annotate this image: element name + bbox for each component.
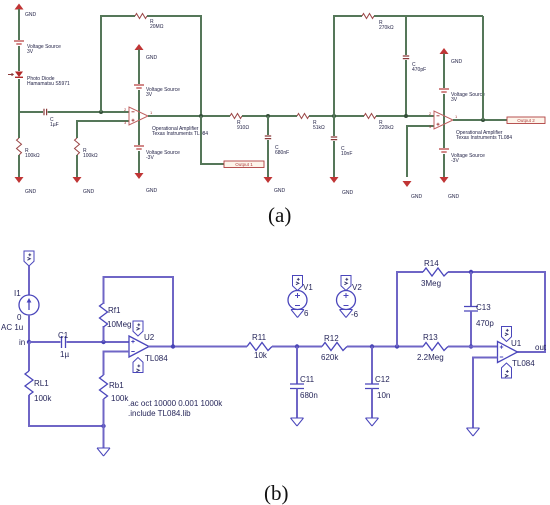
wire R51k to node2: [309, 115, 364, 117]
wire U2 out to R11: [149, 346, 248, 348]
resistor Rf1 10Meg: [100, 303, 132, 329]
net flag V- below U2: [133, 358, 143, 373]
node U2 out: [171, 344, 175, 348]
wire feedback1 top right: [147, 16, 201, 116]
capacitor C 1uF: [44, 109, 59, 128]
wire left rail low: [18, 79, 20, 113]
svg-text:680n: 680n: [300, 391, 318, 400]
svg-text:10Meg: 10Meg: [107, 320, 131, 329]
node C13 bottom: [469, 344, 473, 348]
ground GND top-left: [15, 4, 37, 19]
wire node to RL1: [28, 342, 30, 371]
resistor Rb1 100k: [100, 375, 130, 403]
wire feedback up: [397, 272, 423, 347]
wire node to C680: [267, 116, 269, 135]
svg-text:0: 0: [17, 313, 22, 322]
svg-text:Texas Instruments TL084: Texas Instruments TL084: [456, 135, 512, 141]
svg-text:R13: R13: [423, 333, 438, 342]
svg-text:R11: R11: [252, 333, 267, 342]
net flag V+ above U1: [502, 327, 512, 342]
caption (a): [268, 203, 291, 227]
svg-text:-3V: -3V: [146, 155, 154, 161]
svg-text:GND: GND: [83, 189, 95, 195]
wire C13 stem: [470, 272, 472, 306]
resistor R1 100k: [17, 138, 40, 159]
wire rail to ground: [103, 426, 105, 448]
net flag above V1: [293, 276, 303, 291]
capacitor C11 680n: [290, 375, 318, 400]
wire feedback3 left vertical: [334, 16, 362, 116]
capacitor C 10nF: [331, 137, 353, 157]
wire gnd to vs1: [138, 50, 140, 85]
svg-text:TL084: TL084: [512, 359, 535, 368]
svg-text:100k: 100k: [111, 394, 129, 403]
node Rf1 bottom: [101, 340, 105, 344]
voltage source V1 6: [288, 283, 313, 318]
node C10n: [332, 114, 336, 118]
wire feedback1 left vertical and top: [101, 16, 135, 112]
svg-text:.include TL084.lib: .include TL084.lib: [128, 409, 191, 418]
wire row B opamp1 out to R910: [148, 115, 230, 117]
wire U1 minus branch: [473, 358, 498, 429]
node C12: [370, 344, 374, 348]
wire R13 to U1 plus: [448, 346, 498, 348]
svg-text:10n: 10n: [377, 391, 390, 400]
svg-text:GND: GND: [274, 188, 286, 194]
svg-text:(b): (b): [264, 481, 289, 505]
svg-text:51kΩ: 51kΩ: [313, 125, 325, 131]
svg-text:Output 2: Output 2: [517, 118, 535, 123]
net flag above I1: [24, 251, 34, 266]
wire C13 to row: [470, 311, 472, 347]
svg-text:220kΩ: 220kΩ: [379, 125, 394, 131]
svg-text:2.2Meg: 2.2Meg: [417, 353, 444, 362]
wire vs4 to gnd: [443, 154, 445, 177]
ground below opamp3: [440, 177, 460, 200]
wire R1 to gnd: [18, 155, 20, 177]
capacitor C1 1u: [58, 331, 69, 359]
svg-text:270kΩ: 270kΩ: [379, 25, 394, 31]
svg-text:6: 6: [304, 309, 309, 318]
wire R910 to node C680: [242, 115, 297, 117]
svg-text:GND: GND: [25, 189, 37, 195]
wire row A cap to opamp pin2: [48, 111, 129, 113]
ground below R2: [73, 177, 95, 195]
ground below C680: [264, 177, 286, 194]
wire C12 to ground: [371, 389, 373, 419]
node stage3: [404, 114, 408, 118]
svg-text:3V: 3V: [451, 97, 458, 103]
op-amp U1 TL084: [498, 339, 536, 368]
ground below opamp1: [135, 173, 158, 194]
wire flag to I1: [28, 266, 30, 295]
svg-text:(a): (a): [268, 203, 291, 227]
capacitor C12 10n: [365, 375, 390, 400]
wire R12 to R13: [347, 346, 423, 348]
svg-text:Rf1: Rf1: [108, 306, 121, 315]
wire feedback3 top right: [374, 15, 483, 17]
wire U2 minus branch: [104, 352, 130, 376]
wire R2 to gnd: [76, 155, 78, 177]
svg-text:GND: GND: [451, 59, 463, 65]
wire Rb1 to rail: [103, 399, 105, 426]
resistor R 270k: [362, 14, 394, 32]
wire opamp3 output: [453, 119, 507, 121]
voltage source -3V opamp3: [439, 149, 485, 164]
op-amp stage2 TL084: [429, 111, 512, 141]
resistor R12 620k: [321, 334, 347, 362]
svg-text:100kΩ: 100kΩ: [25, 153, 40, 159]
wire row A to cap: [19, 111, 43, 113]
svg-text:U2: U2: [144, 333, 155, 342]
wire C470 lower stem: [405, 60, 407, 116]
wire R220k to opamp3 pin2: [376, 115, 434, 117]
wire Rf1 lower stem: [103, 326, 105, 342]
wire gnd to vs3: [443, 54, 445, 89]
wire R14 to right: [448, 272, 545, 352]
svg-text:10k: 10k: [254, 351, 268, 360]
wire vs1 to opamp1 top: [138, 90, 140, 145]
svg-text:V1: V1: [303, 283, 313, 292]
ground pin3 opamp3: [403, 181, 423, 200]
wire I1 to node in: [28, 315, 30, 342]
node output1: [199, 114, 203, 118]
voltage source V2 -6: [337, 283, 363, 319]
svg-text:Rb1: Rb1: [109, 381, 124, 390]
resistor R11 10k: [247, 333, 272, 360]
svg-text:GND: GND: [411, 194, 423, 200]
svg-text:GND: GND: [146, 55, 158, 61]
svg-text:470pF: 470pF: [412, 67, 426, 73]
wire opamp3 pin3 branch: [407, 126, 434, 177]
svg-text:10nF: 10nF: [341, 151, 352, 157]
wire vs3 to opamp3: [443, 94, 445, 148]
node junction J1: [99, 110, 103, 114]
svg-text:3Meg: 3Meg: [421, 279, 441, 288]
photodiode D1 Hamamatsu S5971: [8, 72, 70, 88]
node output2: [481, 118, 485, 122]
capacitor C 470pF: [403, 56, 426, 73]
wire C470 upper stem: [405, 16, 407, 55]
voltage source -3V opamp1: [134, 146, 180, 161]
svg-text:in: in: [19, 338, 25, 347]
ground V2: [340, 310, 353, 318]
svg-text:1µ: 1µ: [60, 350, 69, 359]
svg-text:I1: I1: [14, 289, 21, 298]
node feedback tap: [395, 344, 399, 348]
svg-text:.ac oct 10000 0.001 1000k: .ac oct 10000 0.001 1000k: [128, 399, 223, 408]
current source I1 AC 1u: [1, 289, 39, 332]
svg-text:TL084: TL084: [145, 354, 168, 363]
ground C12: [366, 418, 379, 426]
ground C11: [291, 418, 304, 426]
svg-text:910Ω: 910Ω: [237, 125, 249, 131]
wire left rail top: [18, 9, 20, 40]
ground below C10n: [330, 177, 354, 196]
wire node to C10n: [333, 116, 335, 136]
net flag V- below U1: [502, 363, 512, 378]
svg-text:470p: 470p: [476, 319, 494, 328]
wire C10n to gnd: [333, 141, 335, 177]
svg-text:C1: C1: [58, 331, 69, 340]
ground main rail: [97, 448, 110, 456]
svg-text:-3V: -3V: [451, 158, 459, 164]
svg-text:620k: 620k: [321, 353, 339, 362]
svg-text:1µF: 1µF: [50, 122, 59, 128]
wire node to R1: [18, 112, 20, 138]
ground V1: [291, 310, 304, 318]
wire in to C1: [29, 341, 61, 343]
svg-text:R14: R14: [424, 259, 439, 268]
resistor R14 3Meg: [421, 259, 448, 288]
resistor RL1 100k: [25, 371, 52, 403]
wire C680 to gnd: [267, 140, 269, 177]
svg-text:Output 1: Output 1: [235, 162, 253, 167]
resistor R 220k: [364, 114, 394, 132]
spice directive .ac: [128, 399, 223, 418]
svg-text:U1: U1: [511, 339, 522, 348]
svg-text:C12: C12: [375, 375, 390, 384]
wire left rail mid: [18, 46, 20, 71]
wire C12 stem: [371, 347, 373, 385]
wire RL1 to rail: [29, 395, 104, 426]
wire output1 tap: [201, 116, 224, 164]
wire C11 to ground: [296, 389, 298, 419]
net label Output 1: [224, 161, 264, 168]
resistor R2 100k: [75, 138, 98, 159]
wire C1 to U2 plus: [67, 341, 130, 343]
voltage source 3V opamp3: [439, 89, 485, 103]
voltage source 3V opamp1: [134, 85, 180, 98]
svg-text:20MΩ: 20MΩ: [150, 24, 164, 30]
capacitor C13 470p: [464, 303, 494, 328]
node in: [19, 338, 31, 347]
net label Output 2: [507, 117, 545, 124]
ground above opamp1: [135, 44, 158, 61]
svg-text:Hamamatsu S5971: Hamamatsu S5971: [27, 81, 70, 87]
wire vs2 to gnd: [138, 151, 140, 173]
voltage source V 3V left: [14, 41, 61, 55]
svg-text:3V: 3V: [146, 92, 153, 98]
resistor R 910: [230, 114, 249, 132]
svg-text:GND: GND: [146, 188, 158, 194]
svg-text:AC 1u: AC 1u: [1, 323, 23, 332]
svg-text:680nF: 680nF: [275, 150, 289, 156]
net flag above V2: [341, 276, 351, 291]
op-amp U2 TL084: [129, 333, 168, 363]
svg-text:3V: 3V: [27, 49, 34, 55]
ground below R1: [15, 177, 37, 195]
svg-text:100k: 100k: [34, 394, 52, 403]
op-amp stage1 TL084: [124, 107, 208, 137]
svg-text:C13: C13: [476, 303, 491, 312]
node C680: [266, 114, 270, 118]
svg-text:GND: GND: [448, 194, 460, 200]
net flag V+ above U2: [133, 321, 143, 336]
svg-text:Texas Instruments TL084: Texas Instruments TL084: [152, 131, 208, 137]
node C13 top: [469, 270, 473, 274]
svg-text:V2: V2: [352, 283, 362, 292]
node C11: [295, 344, 299, 348]
wire Rf1 top loop: [104, 277, 174, 347]
capacitor C 680nF: [265, 136, 289, 156]
ground above opamp3: [440, 48, 463, 65]
svg-text:out: out: [535, 343, 547, 352]
svg-text:R12: R12: [324, 334, 339, 343]
caption (b): [264, 481, 289, 505]
wire R11 to R12: [272, 346, 322, 348]
ground U1 minus: [467, 428, 480, 436]
resistor R 51k: [297, 114, 325, 132]
svg-text:-6: -6: [351, 310, 359, 319]
svg-text:GND: GND: [342, 190, 354, 196]
node rail: [101, 424, 105, 428]
resistor Rf 20M: [135, 14, 164, 31]
svg-text:100kΩ: 100kΩ: [83, 153, 98, 159]
wire feedback3 right vertical: [482, 16, 484, 120]
svg-text:C11: C11: [300, 375, 315, 384]
wire C11 stem: [296, 347, 298, 385]
net label out: [535, 343, 547, 352]
wire pin3 branch: [77, 121, 129, 138]
svg-text:RL1: RL1: [34, 379, 49, 388]
svg-text:GND: GND: [25, 12, 37, 18]
resistor R13 2.2Meg: [417, 333, 448, 362]
